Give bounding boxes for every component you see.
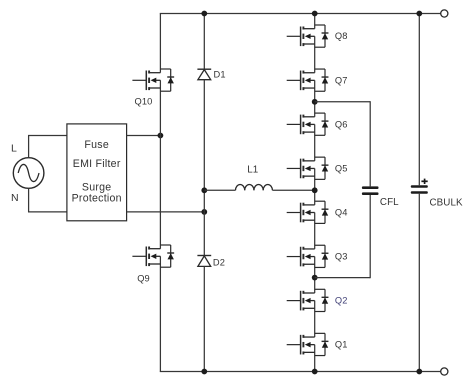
wire bottom rail (-) [160, 371, 441, 373]
label L1 [247, 165, 258, 176]
label Q2 [335, 296, 348, 306]
svg-text:D1: D1 [214, 70, 226, 80]
wire filter to Q10-Q9 node [127, 135, 161, 137]
label L (line) [11, 143, 17, 155]
transistor Q7 [287, 69, 329, 91]
node Q7-Q6 flying-cap tap [312, 99, 318, 105]
label Q10 [135, 97, 153, 107]
wire top rail (+) [160, 13, 441, 15]
label Q8 [335, 31, 348, 41]
wire L1 left lead [204, 189, 235, 191]
svg-text:Q5: Q5 [335, 163, 348, 173]
transistor Q8 [287, 25, 329, 47]
node L1 tap junction [201, 187, 207, 193]
capacitor CBULK [411, 185, 428, 194]
fuse / EMI filter / surge protection block [67, 124, 127, 221]
label CBULK [430, 197, 464, 208]
label CBULK polarity + [421, 179, 427, 184]
svg-text:Q6: Q6 [335, 119, 348, 129]
svg-text:Fuse: Fuse [84, 139, 109, 151]
transistor Q2 [287, 289, 329, 311]
wire top rail to CBULK [418, 14, 420, 186]
svg-text:Q7: Q7 [335, 75, 348, 85]
wire Q10 source to Q9 drain [159, 80, 161, 248]
label Q1 [335, 340, 348, 350]
svg-text:Q2: Q2 [335, 296, 348, 306]
node box-top junction [158, 133, 164, 139]
inductor L1 [236, 184, 273, 190]
label Q9 [137, 274, 150, 284]
svg-text:CBULK: CBULK [430, 197, 464, 208]
label Q4 [335, 207, 348, 217]
transistor Q4 [287, 201, 329, 223]
wire Q7-Q6 tap to CFL [315, 101, 371, 186]
diode D2 [197, 256, 211, 267]
AC source V1 [13, 158, 44, 189]
wire D2 anode to bottom rail [203, 266, 205, 371]
wire D1 cathode to top rail [203, 14, 205, 70]
svg-text:Q4: Q4 [335, 207, 348, 217]
wire CBULK to bottom rail [418, 194, 420, 372]
node box-bottom junction [201, 209, 207, 215]
svg-text:L1: L1 [247, 165, 258, 176]
svg-text:CFL: CFL [380, 197, 399, 208]
wire AC L to filter box [28, 136, 67, 158]
svg-text:Q3: Q3 [335, 251, 348, 261]
transistor Q1 [287, 333, 329, 355]
svg-text:Q8: Q8 [335, 31, 348, 41]
node bottom D column junction [201, 369, 207, 375]
wire D1 anode to D2 cathode [203, 80, 205, 256]
label Q5 [335, 163, 348, 173]
svg-text:D2: D2 [213, 258, 225, 268]
node D1 top rail junction [201, 11, 207, 17]
diode D1 [197, 69, 211, 80]
transistor Q5 [287, 157, 329, 179]
wire Q9 source to bottom rail [159, 256, 161, 371]
svg-text:Q9: Q9 [137, 274, 150, 284]
wire switching stack bus [314, 14, 316, 372]
svg-text:N: N [11, 192, 19, 204]
node CBULK top rail junction [416, 11, 422, 17]
svg-text:Q1: Q1 [335, 340, 348, 350]
label Q3 [335, 251, 348, 261]
node Q3-Q2 flying-cap tap [312, 275, 318, 281]
transistor Q6 [287, 113, 329, 135]
wire AC N to filter box [28, 188, 67, 212]
label D2 [213, 258, 225, 268]
wire L1 right lead [272, 189, 314, 191]
node CBULK bottom rail junction [416, 369, 422, 375]
transistor Q3 [287, 245, 329, 267]
wire Q10 drain to top rail [159, 14, 161, 73]
label N (neutral) [11, 192, 19, 204]
svg-text:L: L [11, 143, 17, 155]
node stack bottom rail junction [312, 369, 318, 375]
terminal DC+ output [441, 10, 448, 17]
label Q7 [335, 75, 348, 85]
svg-text:Protection: Protection [72, 192, 122, 204]
transistor Q9 [132, 245, 174, 267]
transistor Q10 [132, 69, 174, 91]
label Q6 [335, 119, 348, 129]
label D1 [214, 70, 226, 80]
svg-text:Q10: Q10 [135, 97, 153, 107]
svg-text:EMI Filter: EMI Filter [73, 158, 121, 170]
capacitor CFL [362, 186, 379, 195]
wire filter to D1-D2 node [127, 211, 205, 213]
label CFL [380, 197, 399, 208]
node switch node (L1) [312, 187, 318, 193]
terminal DC- output [441, 368, 448, 375]
wire Q3-Q2 tap to CFL [315, 195, 371, 278]
node stack top rail junction [312, 11, 318, 17]
